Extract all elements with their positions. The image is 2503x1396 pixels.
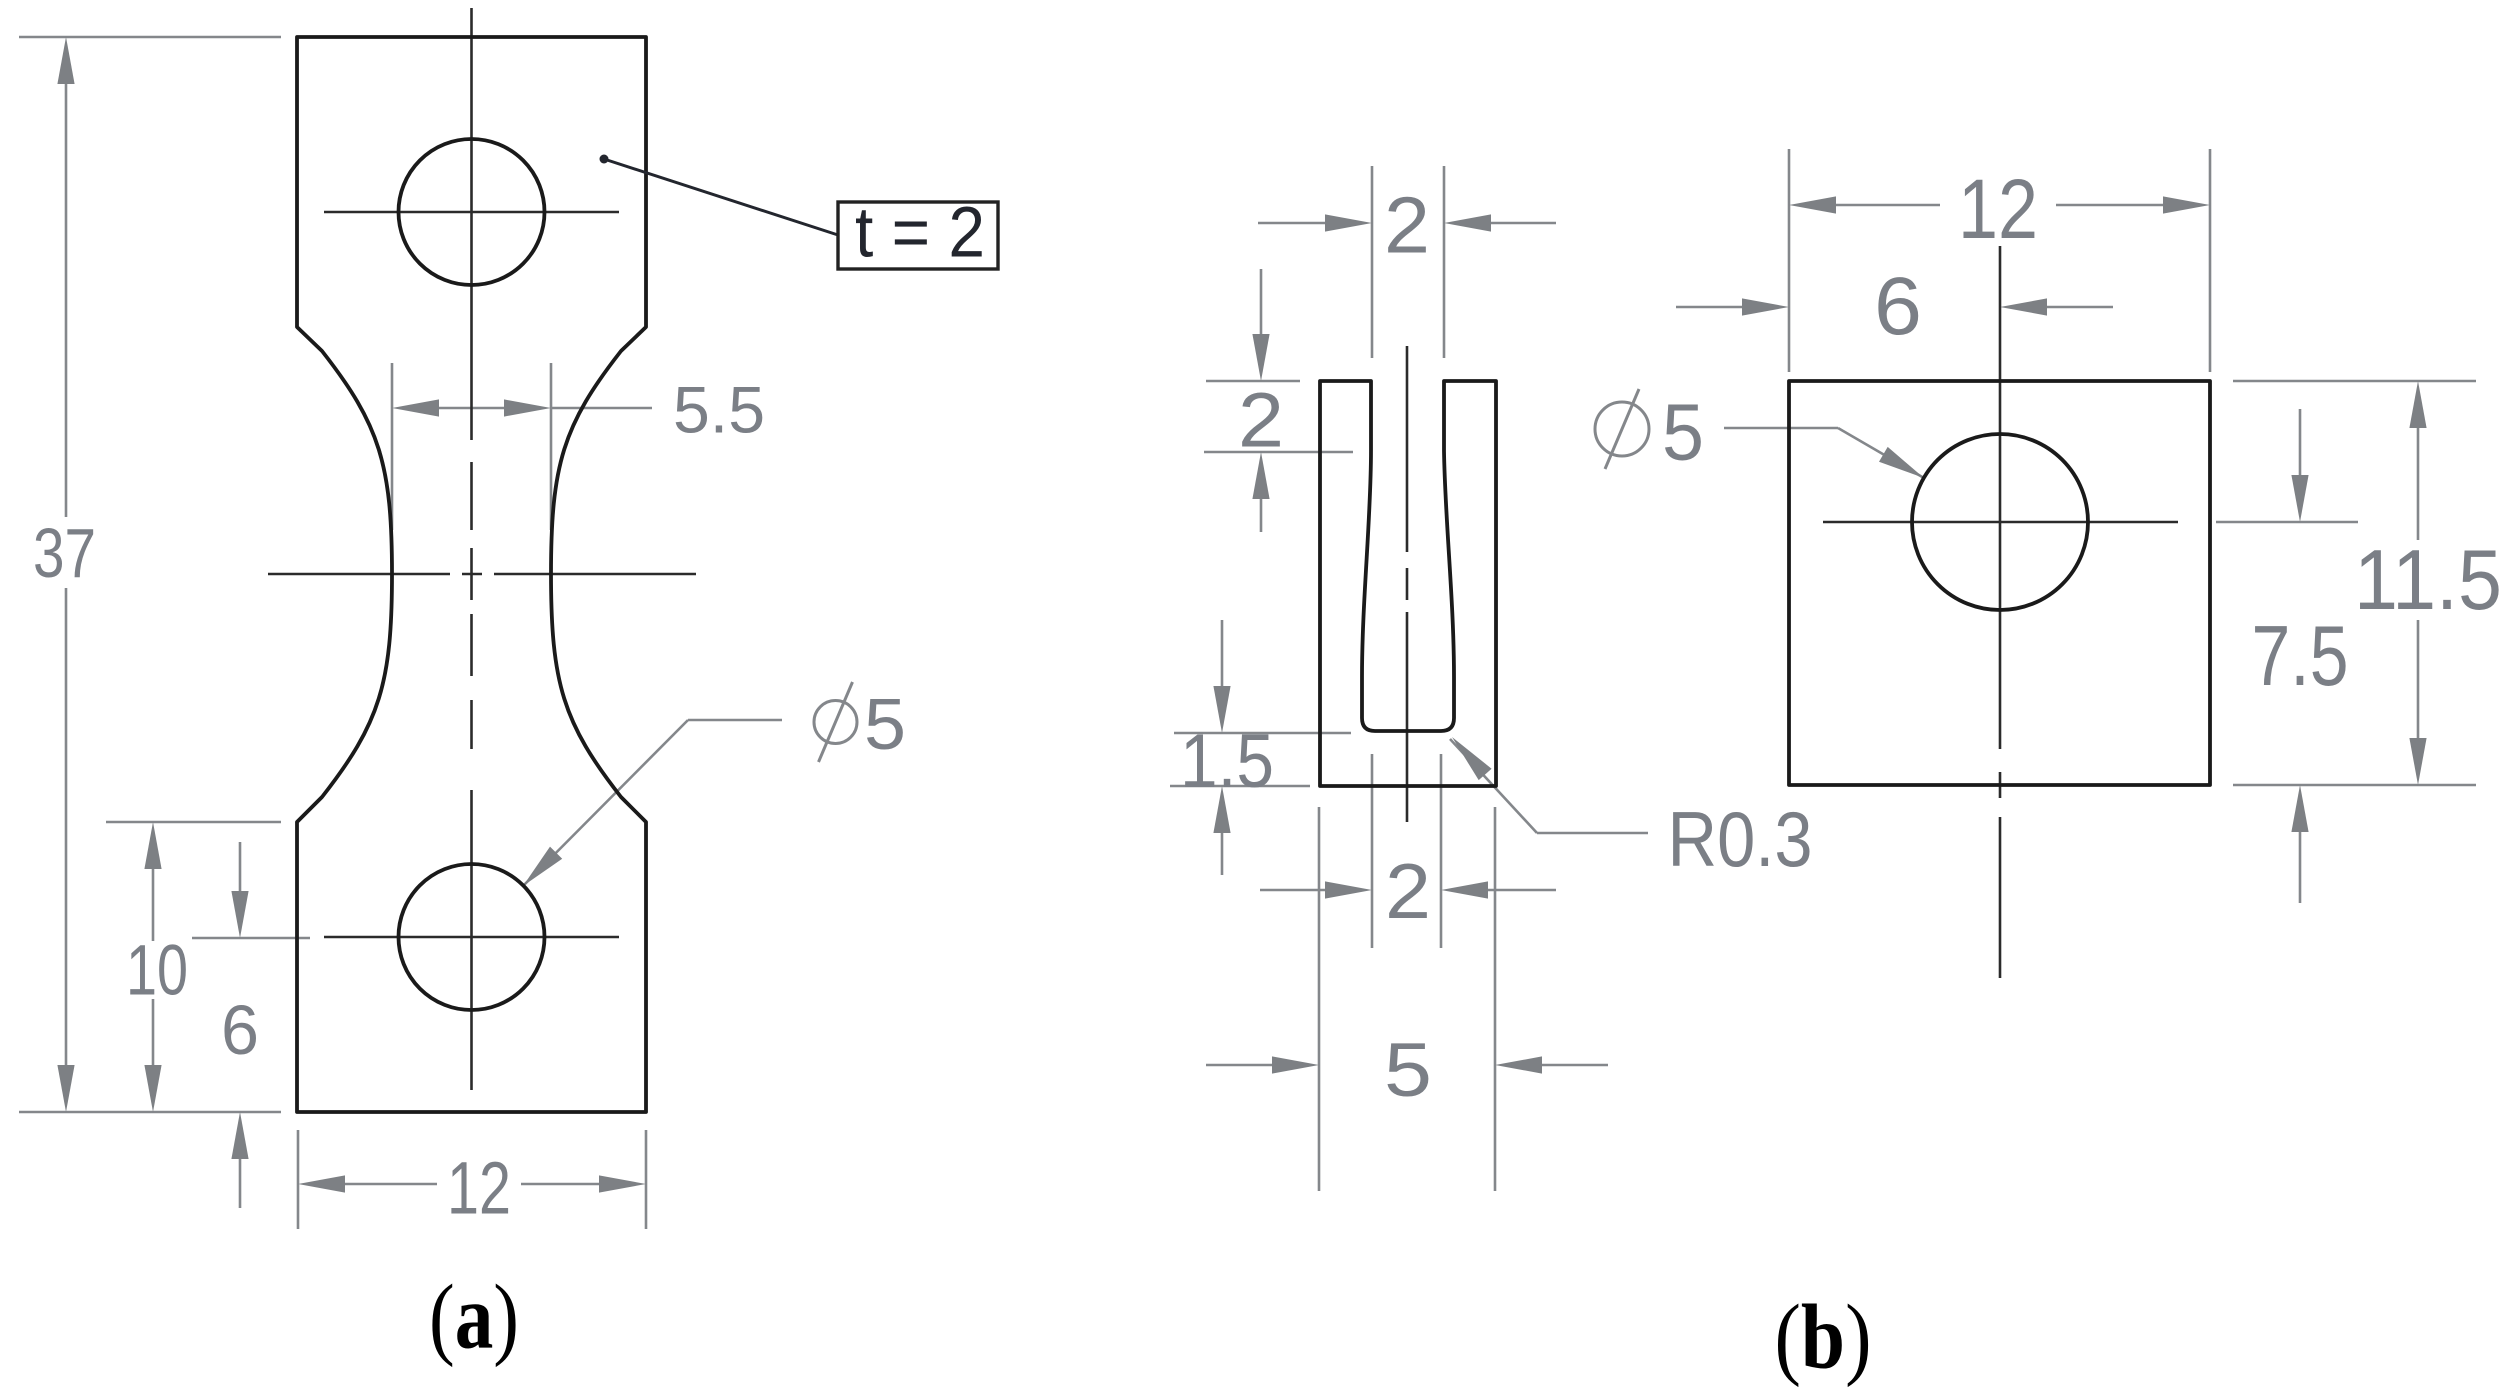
svg-text:(a): (a) [429,1266,519,1368]
svg-text:R0.3: R0.3 [1668,795,1813,883]
svg-text:t = 2: t = 2 [855,193,985,272]
svg-text:6: 6 [221,991,259,1069]
svg-text:11.5: 11.5 [2354,533,2502,628]
svg-text:7.5: 7.5 [2252,609,2349,704]
svg-text:37: 37 [33,514,96,592]
svg-text:6: 6 [1874,261,1922,352]
svg-text:2: 2 [1385,847,1431,935]
svg-text:2: 2 [1384,181,1430,270]
svg-text:5: 5 [1384,1028,1432,1113]
svg-text:12: 12 [1958,162,2038,256]
svg-text:5: 5 [1662,388,1704,477]
svg-text:10: 10 [126,931,188,1010]
svg-text:12: 12 [447,1147,511,1230]
svg-text:5: 5 [864,685,906,765]
svg-text:(b): (b) [1775,1286,1872,1388]
svg-text:5.5: 5.5 [673,373,765,447]
svg-text:2: 2 [1238,378,1284,464]
svg-text:1.5: 1.5 [1180,719,1274,804]
